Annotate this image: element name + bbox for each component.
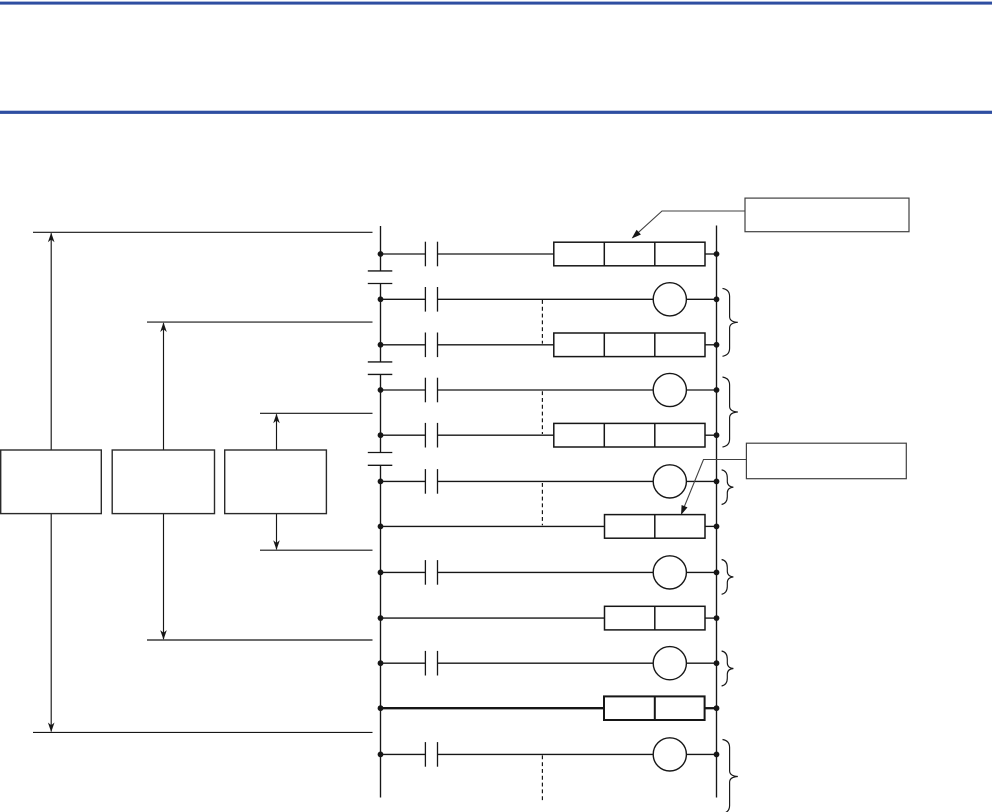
grouping brace 4 — [722, 560, 734, 595]
reference line 5 (y=640.0) — [147, 639, 373, 641]
rung 1 function block divider 2 — [654, 242, 656, 266]
rung 1 wire (block to rail) — [705, 253, 717, 255]
grouping brace 2 — [723, 377, 738, 447]
rung 7 function block body — [605, 515, 706, 539]
rung 4 output coil — [653, 373, 686, 406]
rung 11 left rail junction dot — [378, 705, 384, 711]
rung 11 right rail junction dot — [714, 705, 720, 711]
rung 3 wire (block to rail) — [705, 344, 717, 346]
rung 8 wire (coil to rail) — [686, 571, 716, 573]
rail section break bar (y=361.9) — [368, 361, 393, 363]
rail section break bar (y=452.5) — [368, 452, 393, 454]
rung 11 function block divider — [654, 696, 656, 720]
rung 1 left rail junction dot — [378, 251, 384, 257]
rung 2 wire (rail to contact) — [381, 298, 426, 300]
rung 2 right rail junction dot — [714, 296, 720, 302]
rung 12 output coil — [653, 738, 686, 771]
rung 3 left rail junction dot — [378, 342, 384, 348]
callout 2 leader line — [682, 460, 747, 514]
dimension arrow 2 upper head — [160, 322, 167, 332]
rung 7 left rail junction dot — [378, 524, 384, 530]
rail section break bar (y=374.4) — [368, 373, 393, 375]
rung 12 wire (coil to rail) — [686, 753, 716, 755]
rung 8 left rail junction dot — [378, 570, 384, 576]
rung 1 right rail junction dot — [714, 251, 720, 257]
rung 5 contact left bar — [424, 423, 426, 448]
dashed omitted-rungs line (y 300.0-343.6) — [541, 300, 543, 344]
rung 12 wire (contact to coil) — [438, 753, 654, 755]
rung 3 contact right bar — [437, 333, 439, 358]
rung 9 left rail junction dot — [378, 615, 384, 621]
rung 11 wire (rail to block) — [381, 707, 605, 709]
rung 6 wire (contact to coil) — [438, 480, 654, 482]
rung 9 wire (block to rail) — [705, 617, 717, 619]
rung 3 wire (contact to block) — [438, 344, 554, 346]
rung 6 contact left bar — [424, 469, 426, 494]
left power rail segment 1 — [380, 226, 382, 271]
callout box 2 — [746, 443, 906, 479]
rung 10 contact right bar — [437, 651, 439, 676]
rung 3 wire (rail to contact) — [381, 344, 426, 346]
rung 12 contact right bar — [437, 742, 439, 767]
rung 3 function block divider 1 — [603, 333, 605, 357]
rung 6 output coil — [653, 465, 686, 498]
rung 5 function block divider 2 — [654, 423, 656, 447]
rung 5 wire (block to rail) — [705, 434, 717, 436]
rung 2 wire (coil to rail) — [686, 298, 716, 300]
rung 7 wire (block to rail) — [705, 525, 717, 527]
rung 7 right rail junction dot — [714, 524, 720, 530]
rung 9 function block body — [605, 606, 706, 630]
left power rail segment 4 — [380, 465, 382, 797]
rung 5 right rail junction dot — [714, 432, 720, 438]
program range box A — [1, 450, 102, 514]
rung 5 contact right bar — [437, 423, 439, 448]
rung 6 left rail junction dot — [378, 479, 384, 485]
grouping brace 5 — [722, 651, 734, 686]
rung 10 output coil — [653, 647, 686, 680]
rail section break bar (y=465.3) — [368, 464, 393, 466]
rung 8 output coil — [653, 556, 686, 589]
right power rail — [716, 226, 718, 798]
reference line 3 (y=413.3) — [260, 412, 373, 414]
rung 10 wire (rail to contact) — [381, 662, 426, 664]
rung 8 wire (rail to contact) — [381, 571, 426, 573]
grouping brace 1 — [723, 288, 738, 356]
rung 6 wire (coil to rail) — [686, 480, 716, 482]
rung 1 wire (contact to block) — [438, 253, 554, 255]
rung 3 contact left bar — [424, 333, 426, 358]
reference line 6 (y=732.4) — [33, 731, 373, 733]
rung 11 function block body — [604, 696, 705, 720]
rung 3 function block divider 2 — [654, 333, 656, 357]
header separator blue rule — [0, 111, 992, 114]
rung 2 left rail junction dot — [378, 296, 384, 302]
rung 6 wire (rail to contact) — [381, 480, 426, 482]
dashed omitted-rungs line (y 483.0-525.2) — [541, 483, 543, 525]
rung 10 contact left bar — [424, 651, 426, 676]
rail section break bar (y=270.9) — [368, 270, 393, 272]
program range box B — [112, 450, 214, 514]
reference line 4 (y=550.2) — [260, 549, 373, 551]
rung 10 wire (contact to coil) — [438, 662, 654, 664]
reference line 2 (y=322.1) — [147, 321, 373, 323]
top blue rule — [0, 2, 992, 5]
rung 9 right rail junction dot — [714, 615, 720, 621]
rung 5 function block divider 1 — [603, 423, 605, 447]
rung 1 contact right bar — [437, 242, 439, 267]
rung 2 wire (contact to coil) — [438, 298, 654, 300]
rung 1 contact left bar — [424, 242, 426, 267]
dashed omitted-rungs line (y 755.4-800.3) — [541, 755, 543, 800]
rung 10 wire (coil to rail) — [686, 662, 716, 664]
dashed omitted-rungs line (y 391.2-434.0) — [541, 391, 543, 434]
dimension arrow 1 lower head — [48, 723, 55, 733]
grouping brace 3 — [722, 470, 734, 505]
rung 5 wire (rail to contact) — [381, 434, 426, 436]
rung 1 wire (rail to contact) — [381, 253, 426, 255]
rung 1 function block body — [554, 242, 705, 266]
dimension arrow 3 shaft — [276, 414, 278, 549]
rung 8 right rail junction dot — [714, 570, 720, 576]
rung 12 wire (rail to contact) — [381, 753, 426, 755]
dimension arrow 1 shaft — [50, 233, 52, 731]
rung 2 contact left bar — [424, 287, 426, 312]
rung 4 right rail junction dot — [714, 387, 720, 393]
rung 6 contact right bar — [437, 469, 439, 494]
rung 12 left rail junction dot — [378, 752, 384, 758]
grouping brace 6 — [723, 740, 738, 812]
rung 4 contact left bar — [424, 378, 426, 403]
rung 9 function block divider — [654, 606, 656, 630]
rung 10 right rail junction dot — [714, 660, 720, 666]
rung 8 contact right bar — [437, 560, 439, 585]
rung 7 function block divider — [654, 515, 656, 539]
rung 8 contact left bar — [424, 560, 426, 585]
program range box C — [225, 450, 327, 514]
callout 1 leader arrowhead — [632, 230, 641, 239]
rung 11 wire (block to rail) — [705, 707, 717, 709]
dimension arrow 1 upper head — [48, 233, 55, 243]
rung 3 function block body — [554, 333, 705, 357]
rung 10 left rail junction dot — [378, 660, 384, 666]
callout 2 leader arrowhead — [681, 505, 688, 515]
rung 9 wire (rail to block) — [381, 617, 605, 619]
dimension arrow 2 lower head — [160, 630, 167, 640]
dimension arrow 3 upper head — [273, 414, 280, 424]
rung 4 wire (contact to coil) — [438, 389, 654, 391]
rung 2 contact right bar — [437, 287, 439, 312]
left power rail segment 3 — [380, 374, 382, 452]
callout box 1 — [745, 198, 909, 232]
rung 12 contact left bar — [424, 742, 426, 767]
rung 5 left rail junction dot — [378, 432, 384, 438]
reference line 1 (y=232.3) — [33, 231, 373, 233]
rung 4 wire (coil to rail) — [686, 389, 716, 391]
dimension arrow 3 lower head — [273, 540, 280, 550]
rung 7 wire (rail to block) — [381, 525, 605, 527]
left power rail segment 2 — [380, 284, 382, 362]
callout 1 leader line — [633, 211, 745, 238]
rung 4 wire (rail to contact) — [381, 389, 426, 391]
dimension arrow 2 shaft — [163, 323, 165, 639]
rung 5 function block body — [554, 423, 705, 447]
rung 12 right rail junction dot — [714, 752, 720, 758]
rung 8 wire (contact to coil) — [438, 571, 654, 573]
rung 4 left rail junction dot — [378, 387, 384, 393]
rung 5 wire (contact to block) — [438, 434, 554, 436]
rung 4 contact right bar — [437, 378, 439, 403]
rung 6 right rail junction dot — [714, 479, 720, 485]
rung 1 function block divider 1 — [603, 242, 605, 266]
rail section break bar (y=283.5) — [368, 283, 393, 285]
rung 2 output coil — [653, 283, 686, 316]
rung 3 right rail junction dot — [714, 342, 720, 348]
